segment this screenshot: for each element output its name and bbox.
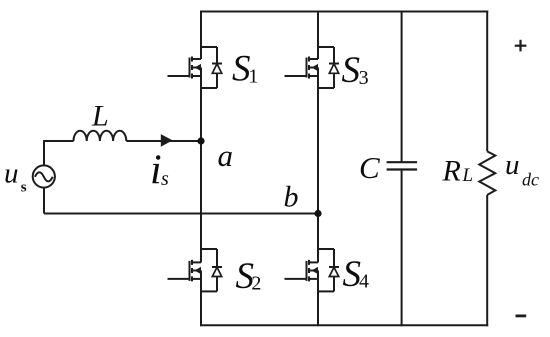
- svg-text:s: s: [21, 179, 27, 195]
- wire: bridge leg b lower segment: [317, 271, 319, 327]
- wire: bridge leg b middle segment (through node b): [317, 68, 319, 263]
- transistor S4 (MOSFET, bottom right): [285, 260, 319, 282]
- wire: bridge leg a (x=201) upper segment: [200, 11, 202, 60]
- body diode of S4: [318, 249, 339, 291]
- svg-text:2: 2: [251, 273, 261, 295]
- transistor S3 (MOSFET, top right): [285, 57, 319, 79]
- wire: top DC rail: [200, 11, 488, 13]
- inductor L: [74, 131, 127, 141]
- label u_s: [4, 158, 27, 196]
- wire: bridge leg b (x=318) upper segment: [317, 11, 319, 60]
- wire: bridge leg a lower segment: [200, 271, 202, 327]
- body diode of S1: [201, 47, 222, 88]
- wire: bottom return wire from source to node b: [44, 213, 318, 215]
- wire: source top lead: [44, 140, 74, 141]
- svg-text:3: 3: [359, 67, 369, 89]
- svg-text:i: i: [150, 147, 162, 193]
- svg-text:s: s: [161, 168, 169, 190]
- body diode of S3: [318, 47, 339, 88]
- resistor RL: [479, 151, 495, 195]
- svg-text:4: 4: [359, 271, 369, 293]
- AC source u_s: [33, 165, 55, 187]
- svg-text:dc: dc: [522, 169, 539, 189]
- node b: [314, 210, 321, 217]
- wire: inductor to node a: [126, 140, 201, 142]
- svg-text:1: 1: [248, 65, 258, 87]
- svg-text:L: L: [462, 165, 474, 186]
- svg-text:u: u: [4, 158, 19, 190]
- plus terminal: [515, 40, 527, 52]
- label u_dc: [505, 149, 539, 190]
- svg-text:S: S: [342, 50, 361, 91]
- transistor S2 (MOSFET, bottom left): [168, 260, 202, 282]
- minus terminal: [516, 314, 527, 317]
- capacitor C: [387, 162, 418, 169]
- wire: bridge leg a middle segment (through node a and crossover): [200, 68, 202, 263]
- transistor S1 (MOSFET, top left): [168, 57, 202, 79]
- wire: capacitor branch upper: [401, 11, 403, 163]
- label RL: [442, 155, 474, 188]
- svg-text:C: C: [359, 150, 380, 185]
- label S2: [236, 256, 262, 297]
- wire: source left vertical top: [43, 141, 45, 166]
- svg-text:b: b: [284, 180, 299, 213]
- svg-text:u: u: [505, 149, 520, 181]
- label S4: [343, 254, 370, 295]
- wire: load branch upper: [486, 11, 488, 152]
- wire: source left vertical bottom: [43, 188, 45, 214]
- label S1: [232, 48, 258, 89]
- wire: capacitor branch lower: [401, 170, 403, 327]
- svg-text:L: L: [91, 99, 109, 132]
- label S3: [342, 50, 369, 91]
- svg-text:a: a: [218, 138, 234, 173]
- node a: [197, 137, 204, 144]
- svg-text:R: R: [442, 155, 461, 188]
- label i_s: [150, 147, 169, 193]
- current arrow i_s: [161, 134, 173, 147]
- body diode of S2: [201, 249, 222, 291]
- wire: bottom DC rail: [200, 324, 488, 326]
- wire: load branch lower: [486, 195, 488, 326]
